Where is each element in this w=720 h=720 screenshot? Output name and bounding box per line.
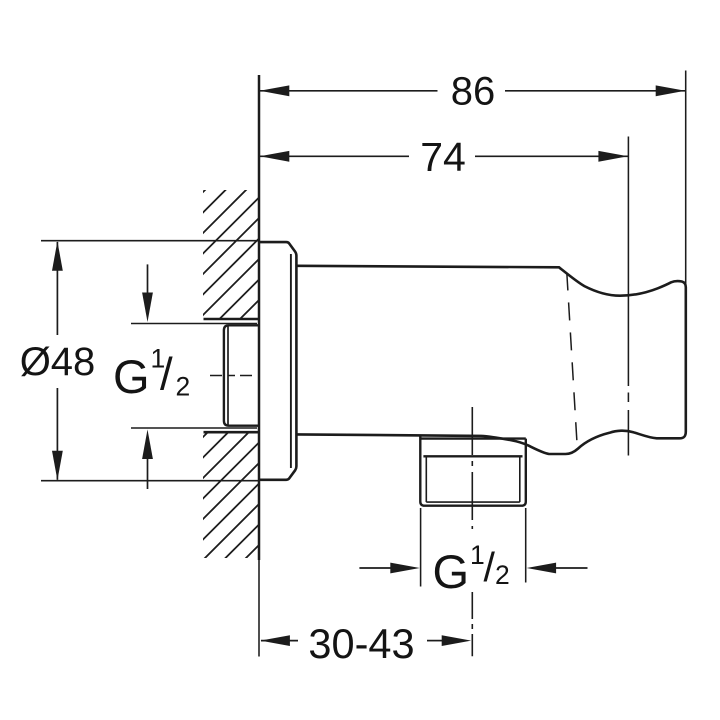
svg-text:Ø48: Ø48 (20, 340, 96, 384)
dimension D48 line (56, 242, 58, 335)
inlet G1/2 dim extension bottom (131, 427, 257, 429)
inlet axis centerline (210, 375, 258, 377)
dimension 74 arrowheads (260, 151, 290, 162)
dimension D48 extension top (41, 240, 259, 242)
wall hatch upper band (0, 0, 580, 700)
holder hidden transition dashed line (567, 273, 578, 449)
outlet axis centerline (471, 407, 473, 529)
dimension 30-43 line (261, 640, 298, 642)
flange face inner line (290, 254, 292, 468)
wall hole upper boundary line (204, 318, 259, 321)
outlet thread bottom inner line (426, 501, 520, 503)
inlet connector inner edge line (227, 326, 229, 425)
wall face line (258, 75, 261, 560)
inlet G1/2 down arrow (147, 264, 149, 296)
outlet thread minor lines (425, 456, 427, 502)
dimension 74 line (260, 155, 410, 157)
dimension 74 extension line right (627, 137, 629, 387)
dimension 86 extension line right (685, 71, 687, 285)
outlet nut outline (420, 436, 526, 506)
svg-text:30-43: 30-43 (308, 620, 414, 667)
outlet G1/2 dim extension right (525, 508, 527, 583)
dimension 30-43 arrowheads (260, 635, 290, 646)
svg-text:2: 2 (176, 371, 191, 401)
svg-text:G: G (113, 350, 150, 403)
wall hole lower boundary line (204, 431, 259, 434)
svg-text:G: G (433, 545, 470, 598)
dimension D48 arrowheads (52, 241, 63, 271)
svg-text:2: 2 (495, 560, 510, 590)
inlet G1/2 label (113, 343, 190, 403)
body and holder outline (296, 266, 685, 454)
outlet G1/2 left arrow (359, 567, 391, 569)
dimension 86 line (260, 90, 438, 92)
flange (wall escutcheon) (259, 242, 296, 480)
inlet thread connector G1/2 behind wall (224, 325, 259, 425)
dimension 86 arrowheads (260, 85, 290, 96)
svg-text:/: / (484, 544, 496, 590)
outlet nut top edge (420, 437, 526, 439)
outlet nut shoulder line (423, 455, 522, 457)
holder axis centerline (627, 393, 629, 403)
inlet G1/2 dim extension top (131, 323, 257, 325)
dimension D48 extension bottom (41, 480, 259, 482)
inlet G1/2 up arrow (147, 456, 149, 489)
svg-text:86: 86 (451, 70, 496, 114)
outlet G1/2 dim extension left (420, 508, 422, 587)
outlet G1/2 right arrow (556, 567, 588, 569)
svg-text:74: 74 (420, 134, 466, 180)
svg-text:/: / (160, 349, 173, 400)
outlet G1/2 label (433, 540, 510, 598)
